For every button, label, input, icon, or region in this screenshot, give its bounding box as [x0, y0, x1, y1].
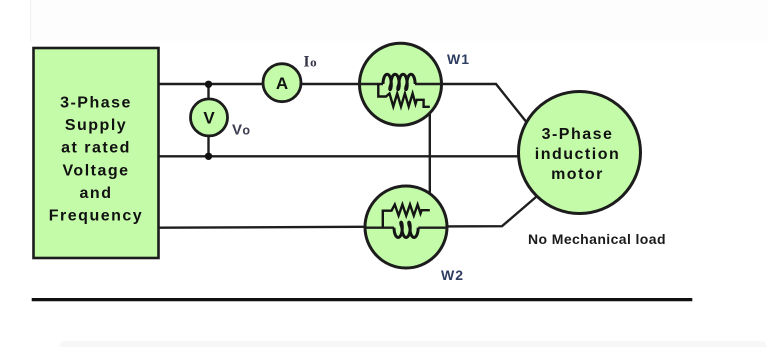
wattmeter W2 — [365, 186, 447, 268]
junction node top (dot) — [205, 81, 212, 88]
W2 voltage coil (resistor) — [383, 205, 430, 228]
motor M (3-phase induction motor) — [519, 92, 641, 214]
wattmeter W1 — [360, 43, 442, 125]
ammeter A — [263, 64, 301, 102]
svg-text:Io: Io — [304, 54, 317, 71]
W1 current coil (inductor) — [383, 74, 415, 89]
svg-text:No Mechanical load: No Mechanical load — [528, 231, 666, 247]
svg-text:induction: induction — [535, 146, 620, 163]
svg-text:3-Phase: 3-Phase — [542, 126, 614, 143]
wire voltmeter stub bottom — [207, 134, 209, 156]
voltmeter V — [191, 99, 228, 136]
separator line — [32, 298, 693, 301]
svg-text:W1: W1 — [447, 51, 470, 67]
3-phase supply box — [34, 48, 159, 258]
slide top faint strip — [30, 0, 768, 42]
svg-text:W2: W2 — [441, 267, 464, 283]
svg-text:V: V — [203, 109, 215, 128]
svg-text:Voltage: Voltage — [62, 162, 129, 179]
wire top line L1 from supply to motor — [159, 84, 528, 124]
svg-text:A: A — [276, 74, 288, 93]
svg-text:and: and — [80, 185, 113, 202]
bottom scrollbar — [60, 341, 767, 347]
wire voltmeter stub top — [207, 84, 209, 101]
wire vertical from W1 resistor down to W2 resistor — [429, 107, 431, 211]
junction node bottom (dot) — [205, 153, 212, 160]
W1 voltage coil (resistor) — [378, 84, 430, 107]
svg-text:Supply: Supply — [65, 117, 127, 134]
W2 current coil (inductor) — [394, 222, 418, 237]
wire middle line L2 from supply to motor — [159, 155, 521, 157]
svg-text:Frequency: Frequency — [49, 208, 143, 225]
svg-text:at rated: at rated — [61, 140, 131, 157]
svg-text:Vo: Vo — [232, 122, 250, 139]
svg-text:motor: motor — [551, 166, 604, 183]
wire bottom line L3 from supply to motor — [159, 197, 536, 228]
svg-text:3-Phase: 3-Phase — [60, 95, 132, 112]
